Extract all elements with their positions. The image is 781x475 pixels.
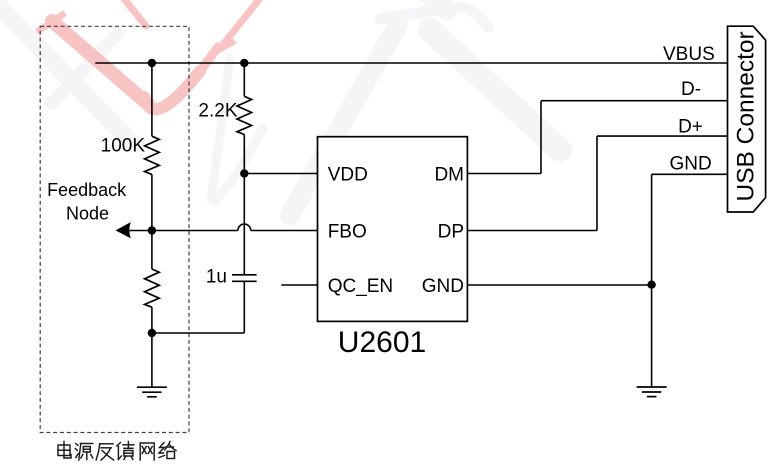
- wire cap bottom: [243, 282, 245, 333]
- wire GND vertical: [651, 174, 653, 285]
- wire 2.2K bottom to VDD node: [243, 135, 245, 174]
- node J6 gnd: [647, 281, 655, 289]
- ground right: [637, 387, 667, 397]
- svg-text:Node: Node: [66, 204, 109, 224]
- node J5 bottom: [148, 329, 156, 337]
- wire 100K top: [151, 63, 153, 136]
- wire QC_EN stub: [281, 284, 317, 286]
- svg-text:USB Connector: USB Connector: [733, 31, 760, 201]
- wire GND node to ground: [651, 285, 653, 387]
- svg-text:2.2K: 2.2K: [198, 101, 237, 122]
- label 电源反馈网络 (drawn glyphs): [58, 442, 176, 461]
- resistor R_100K: [145, 136, 160, 174]
- wire DP vertical: [596, 136, 598, 230]
- wire node to lower resistor: [151, 231, 153, 270]
- wire DM stub: [467, 173, 541, 175]
- svg-text:VDD: VDD: [328, 164, 368, 185]
- wire VBUS top rail: [95, 62, 727, 64]
- node J3 vdd: [240, 169, 248, 177]
- watermark gray band top-left: [0, 0, 560, 215]
- svg-text:GND: GND: [422, 276, 464, 297]
- wire 100K bottom to feedback node: [151, 174, 153, 230]
- resistor R_2.2K: [237, 96, 252, 134]
- svg-text:DP: DP: [438, 221, 464, 242]
- svg-text:D+: D+: [678, 117, 703, 138]
- capacitor C_1u plates: [232, 274, 257, 276]
- wire 2.2K top: [243, 63, 245, 96]
- ground left: [137, 387, 167, 397]
- wire hop over cap line: [238, 224, 251, 230]
- dashed box: feedback network: [40, 26, 189, 432]
- svg-text:VBUS: VBUS: [663, 44, 715, 65]
- node J1 vbus/100K: [148, 59, 156, 67]
- wire GND connector line: [652, 173, 728, 175]
- wire DM vertical: [540, 101, 542, 174]
- node J4 feedback: [148, 226, 156, 234]
- wire VDD node down to cap top: [243, 174, 245, 275]
- chip U2601 body: [318, 137, 468, 322]
- wire bottom node to cap bottom: [152, 332, 244, 334]
- svg-text:100K: 100K: [101, 136, 146, 157]
- wire lower resistor to bottom node: [151, 307, 153, 333]
- wire bottom node to ground: [151, 333, 153, 387]
- watermark pink letters: [37, 0, 262, 109]
- wire feedback node horizontal left part: [128, 230, 238, 232]
- wire DP stub: [467, 230, 597, 232]
- resistor R_lower: [145, 269, 160, 307]
- feedback node arrow: [116, 222, 131, 238]
- svg-text:U2601: U2601: [338, 326, 426, 359]
- svg-text:QC_EN: QC_EN: [328, 276, 393, 297]
- wire VDD stub: [244, 173, 317, 175]
- svg-text:D-: D-: [681, 79, 701, 100]
- wire D+ line: [597, 135, 728, 137]
- svg-text:Feedback: Feedback: [47, 180, 127, 200]
- svg-text:FBO: FBO: [328, 221, 367, 242]
- svg-text:DM: DM: [434, 164, 464, 185]
- svg-text:GND: GND: [670, 153, 712, 174]
- USB connector body: [728, 26, 766, 212]
- node J2 vbus/2.2K: [240, 59, 248, 67]
- svg-text:1u: 1u: [206, 267, 227, 288]
- wire FBO right of hop: [251, 230, 318, 232]
- wire GND stub from chip: [467, 284, 651, 286]
- wire D- line: [541, 100, 728, 102]
